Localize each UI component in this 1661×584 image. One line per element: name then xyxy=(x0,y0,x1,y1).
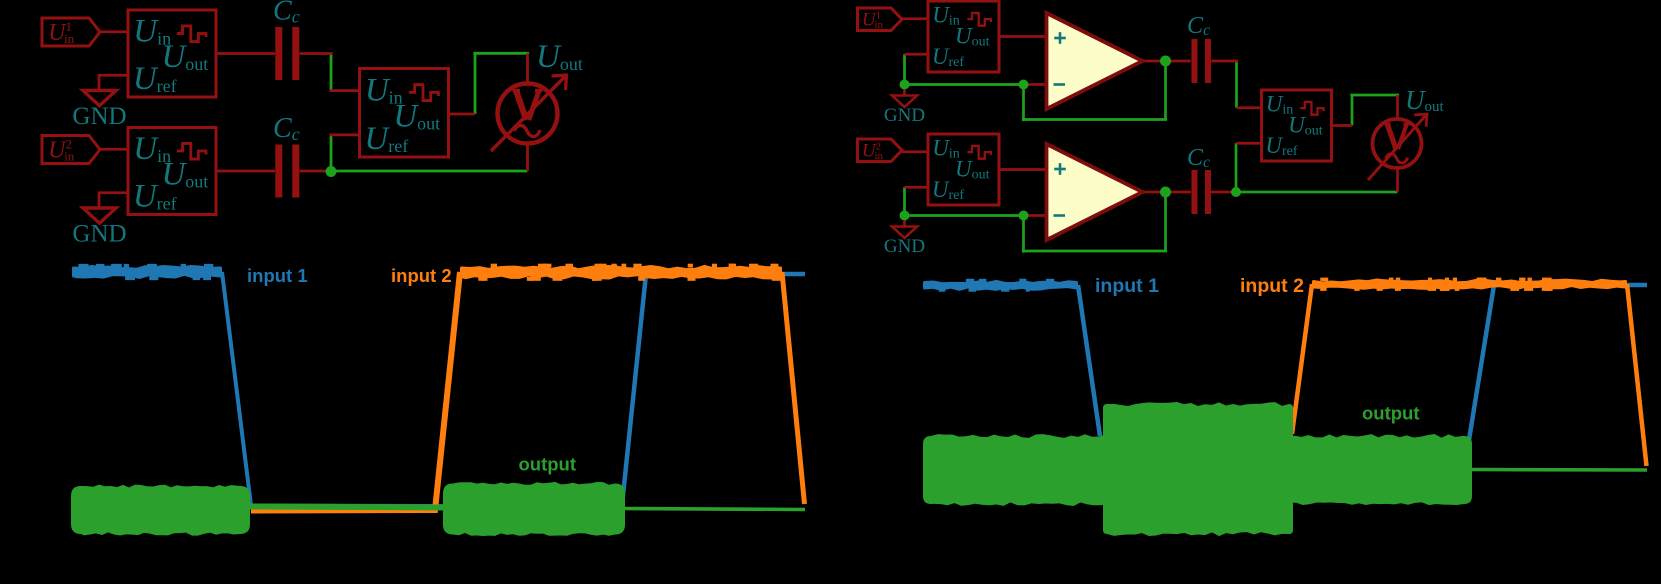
svg-text:input 1: input 1 xyxy=(1095,275,1159,297)
svg-text:input 2: input 2 xyxy=(391,265,452,286)
svg-text:U2in: U2in xyxy=(48,136,75,163)
svg-text:output: output xyxy=(1362,403,1420,424)
svg-text:GND: GND xyxy=(72,220,126,247)
svg-text:GND: GND xyxy=(72,103,126,130)
svg-text:U1in: U1in xyxy=(48,19,75,46)
svg-text:input 1: input 1 xyxy=(247,265,308,286)
svg-text:U1in: U1in xyxy=(862,9,884,31)
svg-text:input 2: input 2 xyxy=(1240,275,1304,297)
svg-text:GND: GND xyxy=(884,105,925,126)
svg-text:U2in: U2in xyxy=(862,140,884,162)
svg-text:GND: GND xyxy=(884,236,925,257)
svg-text:output: output xyxy=(519,454,577,475)
